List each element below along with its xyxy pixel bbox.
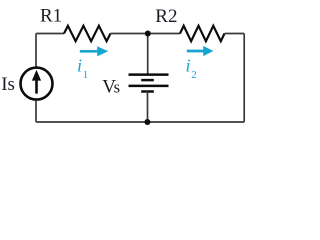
wire right vertical <box>243 34 245 123</box>
wire bottom <box>36 121 244 123</box>
svg-text:Is: Is <box>1 74 15 95</box>
battery Vs plate long bottom <box>129 85 169 88</box>
svg-text:R2: R2 <box>155 6 177 27</box>
resistor R1 <box>64 26 111 41</box>
svg-text:i: i <box>186 56 191 76</box>
node junction dot bottom <box>144 119 150 125</box>
battery Vs plate short lower <box>141 90 154 93</box>
node junction dot top <box>145 31 151 37</box>
wire top-middle segment <box>111 33 181 35</box>
resistor R2 <box>180 26 225 41</box>
svg-text:i: i <box>77 56 82 76</box>
svg-text:1: 1 <box>83 69 89 81</box>
svg-text:R1: R1 <box>40 6 62 27</box>
current arrow i1 <box>80 46 108 56</box>
battery Vs plate long top <box>129 73 169 76</box>
wire top-left segment <box>36 33 64 35</box>
current source arrow <box>32 70 41 94</box>
wire left-bottom segment <box>35 101 37 122</box>
wire left-top segment <box>35 34 37 67</box>
wire top-right segment <box>225 33 245 35</box>
label i1 <box>77 56 88 81</box>
svg-text:2: 2 <box>191 69 197 81</box>
current arrow i2 <box>187 46 214 56</box>
label i2 <box>186 56 197 82</box>
current source Is circle <box>21 68 53 100</box>
wire middle-top segment <box>147 34 149 75</box>
wire middle-bottom segment <box>147 92 149 123</box>
svg-text:s: s <box>114 78 120 97</box>
battery Vs plate short upper <box>141 79 154 82</box>
